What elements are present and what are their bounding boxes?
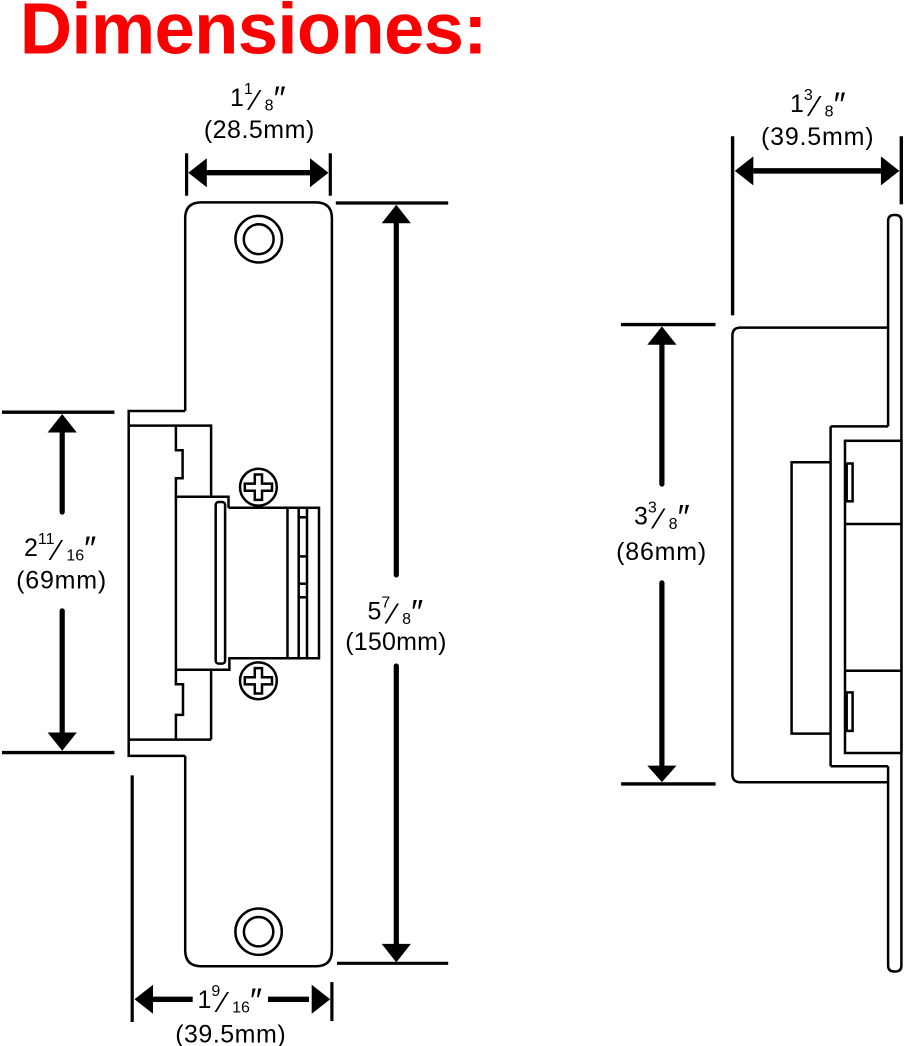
screw top circle (240, 469, 277, 506)
block divider bottom (845, 670, 901, 673)
door frame lip side view (888, 215, 901, 972)
mounting hole bottom outer (235, 909, 281, 955)
keeper left profile with notches (176, 426, 183, 740)
dimension D5 arrow (735, 156, 900, 185)
keeper top edge (129, 426, 211, 497)
keeper mid line (175, 497, 229, 508)
strike keeper block outline (176, 508, 319, 670)
svg-text:(39.5mm): (39.5mm) (175, 1021, 286, 1046)
block tab top (847, 464, 853, 502)
keeper bottom edge (129, 738, 211, 741)
screw bottom phillips cross (245, 668, 272, 693)
latch lip strip front view (216, 502, 225, 664)
dimension D2 arrows (382, 205, 411, 963)
svg-text:(39.5mm): (39.5mm) (761, 123, 874, 151)
keeper lower right edge (210, 670, 213, 740)
dimension D5: side width 1 3/8 ticks (733, 136, 902, 315)
faceplate front view (185, 202, 332, 966)
dimension D4 tick (330, 982, 333, 1021)
keeper body side view (792, 462, 831, 733)
dimension D6: side height 3 3/8 ticks (621, 325, 716, 784)
keeper block vertical rib 2 (297, 508, 300, 659)
channel tick 2 (299, 555, 307, 558)
keeper block vertical rib 3 (306, 508, 309, 659)
dimension D4 arrows (135, 985, 331, 1014)
block tab bottom (847, 692, 853, 731)
mounting hole top outer (235, 216, 282, 263)
dimension D4: width 1 9/16 extension line (131, 775, 134, 1022)
channel tick 4 (299, 596, 307, 599)
channel tick 1 (299, 516, 307, 519)
latch housing front view (129, 411, 186, 756)
channel tick 3 (299, 582, 307, 585)
screw top phillips cross (245, 475, 272, 500)
svg-text:Dimensiones:: Dimensiones: (20, 0, 487, 70)
dimension D3: height 2 11/16 ticks (2, 412, 114, 752)
mounting hole top inner (244, 224, 274, 254)
svg-text:(28.5mm): (28.5mm) (204, 116, 315, 144)
strike housing side view (732, 328, 888, 783)
dimension D6 arrows (647, 326, 676, 782)
block divider top (845, 523, 901, 526)
svg-text:(86mm): (86mm) (616, 538, 707, 566)
svg-text:(150mm): (150mm) (345, 628, 446, 656)
svg-text:(69mm): (69mm) (16, 567, 107, 595)
screw bottom circle (240, 662, 277, 699)
dimension D1 arrow (188, 158, 328, 187)
top step side view (831, 425, 889, 428)
mounting hole bottom inner (244, 917, 273, 946)
bottom step side view (831, 765, 889, 768)
keeper front block side view (845, 441, 901, 753)
keeper block vertical rib 1 (286, 508, 289, 659)
dimension D1: width 1 1/8 ticks (187, 153, 331, 195)
dimension D3 arrows (48, 414, 77, 751)
keeper mid vertical side view (829, 426, 832, 766)
dimension D2: height 5 7/8 ticks (336, 203, 448, 963)
